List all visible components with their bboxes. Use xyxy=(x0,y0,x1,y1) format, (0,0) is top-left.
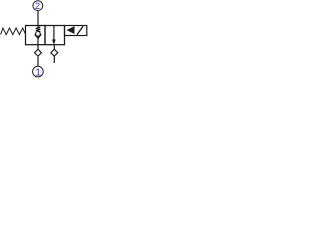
wire port2 to valve body xyxy=(37,11,39,26)
svg-text:1: 1 xyxy=(35,68,41,79)
wire body to left diamond xyxy=(37,45,39,50)
solenoid triangle xyxy=(67,26,75,34)
valve body position box right (flow position) xyxy=(45,26,65,45)
port label circle 1 xyxy=(33,66,44,78)
return spring left xyxy=(1,28,26,35)
port label circle 2 xyxy=(33,0,43,11)
solenoid box xyxy=(65,26,87,36)
wire right diamond stub xyxy=(53,56,55,63)
poppet spring inside left box xyxy=(36,26,41,32)
poppet seat xyxy=(35,34,42,38)
valve body position box left (poppet position) xyxy=(26,26,46,45)
right connector diamond xyxy=(51,49,58,56)
left connector diamond xyxy=(35,49,42,56)
poppet ball xyxy=(36,31,41,36)
wire body to right diamond xyxy=(53,45,55,50)
solenoid slash xyxy=(77,26,83,34)
flow arrow in right box xyxy=(52,26,55,45)
wire seat to box bottom xyxy=(37,38,39,45)
wire left diamond to port 1 xyxy=(37,56,39,66)
svg-text:2: 2 xyxy=(35,0,40,11)
